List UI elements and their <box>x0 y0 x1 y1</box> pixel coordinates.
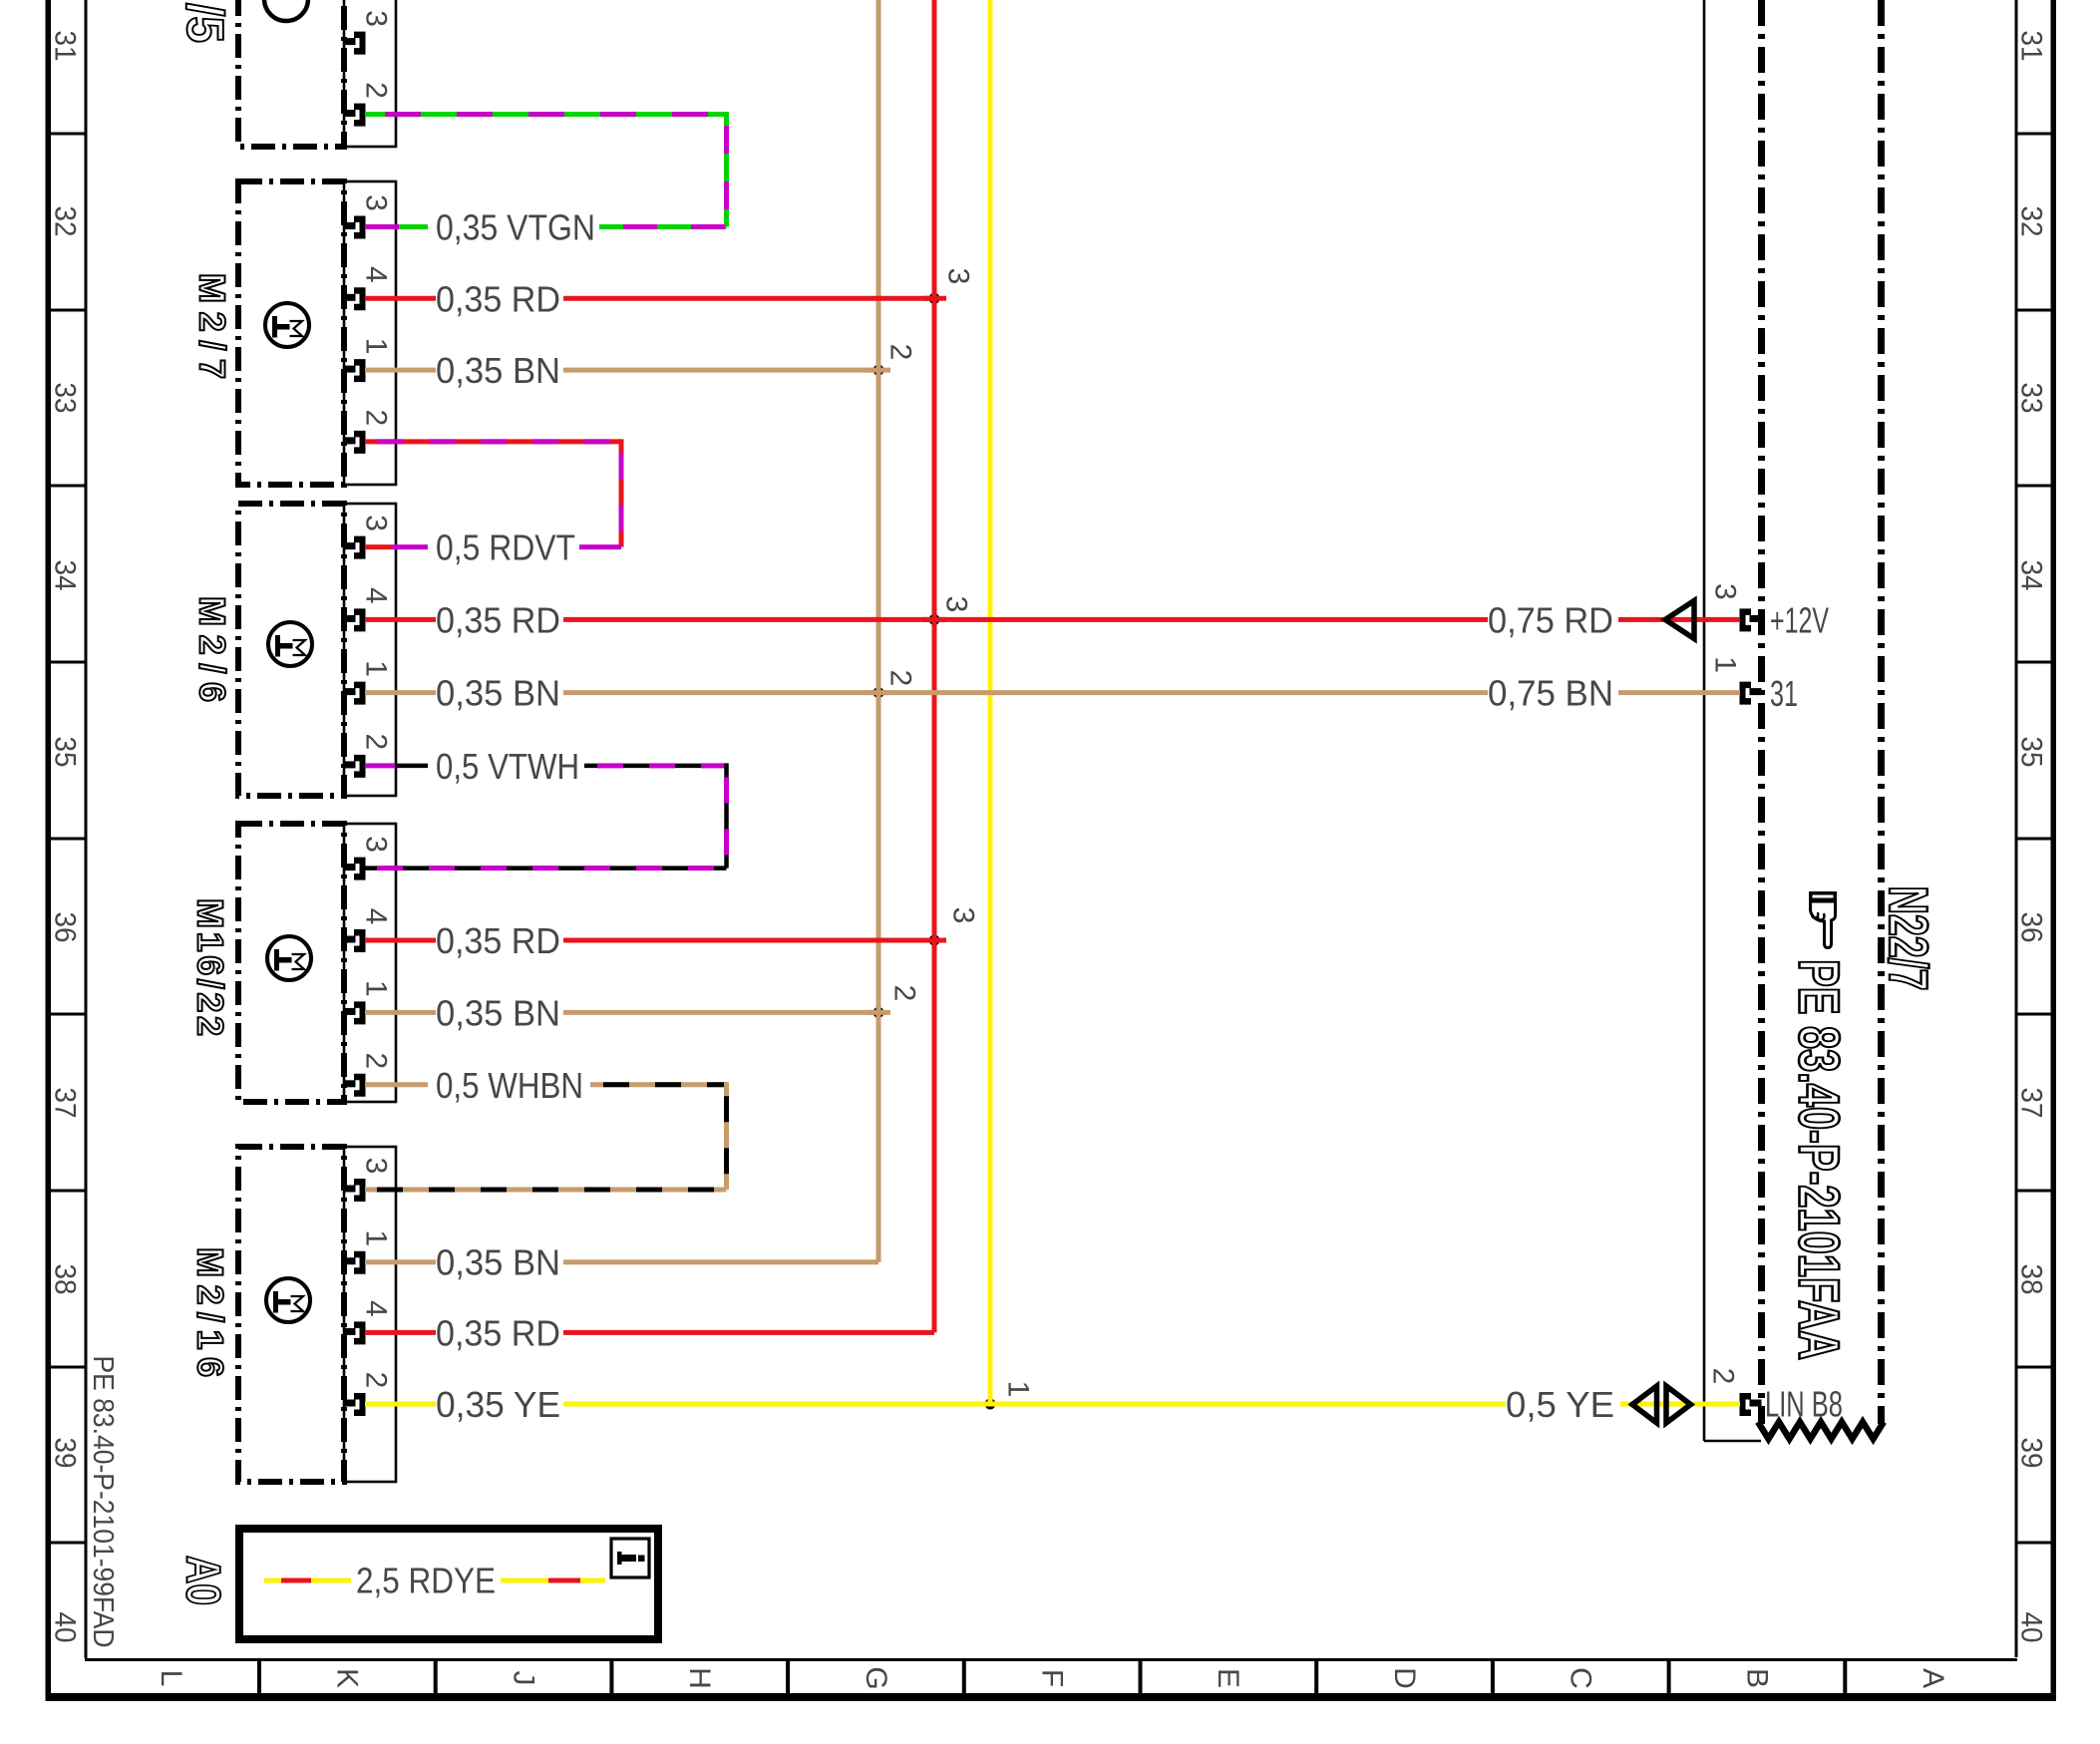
svg-text:3: 3 <box>360 836 393 853</box>
svg-text:0,5 RDVT: 0,5 RDVT <box>436 527 575 568</box>
svg-text:M2/16: M2/16 <box>190 1247 231 1377</box>
svg-text:37: 37 <box>2015 1088 2048 1119</box>
svg-text:PE 83.40-P-2101FAA: PE 83.40-P-2101FAA <box>1787 959 1851 1360</box>
svg-text:0,75 RD: 0,75 RD <box>1488 600 1613 641</box>
svg-text:M16/22: M16/22 <box>190 898 231 1036</box>
svg-text:2: 2 <box>884 344 917 361</box>
svg-text:M2/7: M2/7 <box>192 273 233 379</box>
svg-text:3: 3 <box>942 268 975 285</box>
svg-text:4: 4 <box>360 587 393 604</box>
svg-text:3: 3 <box>940 596 973 613</box>
svg-text:32: 32 <box>2015 206 2048 237</box>
svg-text:/5: /5 <box>175 3 233 43</box>
svg-text:2: 2 <box>360 410 393 427</box>
svg-text:36: 36 <box>2015 912 2048 943</box>
svg-text:38: 38 <box>2015 1264 2048 1295</box>
svg-text:34: 34 <box>49 560 82 591</box>
svg-text:1: 1 <box>360 1229 393 1246</box>
svg-text:2,5 RDYE: 2,5 RDYE <box>356 1561 496 1601</box>
svg-text:0,5 VTWH: 0,5 VTWH <box>436 746 579 787</box>
svg-text:0,35 BN: 0,35 BN <box>436 992 560 1033</box>
svg-text:1: 1 <box>360 980 393 997</box>
svg-text:31: 31 <box>49 31 82 62</box>
svg-text:0,35 RD: 0,35 RD <box>436 599 560 640</box>
svg-text:39: 39 <box>49 1438 82 1469</box>
svg-text:4: 4 <box>360 1300 393 1317</box>
svg-text:0,35 RD: 0,35 RD <box>436 920 560 961</box>
svg-text:0,5 WHBN: 0,5 WHBN <box>436 1065 583 1106</box>
svg-text:4: 4 <box>360 908 393 925</box>
svg-text:0,35 VTGN: 0,35 VTGN <box>436 207 595 248</box>
svg-text:E: E <box>1212 1668 1244 1688</box>
svg-text:0,75 BN: 0,75 BN <box>1488 673 1613 714</box>
svg-text:2: 2 <box>360 1372 393 1389</box>
svg-text:4: 4 <box>360 266 393 283</box>
svg-text:3: 3 <box>360 194 393 211</box>
svg-text:0,35 YE: 0,35 YE <box>436 1384 560 1425</box>
svg-text:1: 1 <box>360 338 393 355</box>
svg-text:A0: A0 <box>176 1556 229 1605</box>
svg-text:35: 35 <box>2015 737 2048 768</box>
svg-text:38: 38 <box>49 1264 82 1295</box>
svg-text:33: 33 <box>2015 383 2048 414</box>
svg-text:0,5 YE: 0,5 YE <box>1506 1384 1614 1425</box>
svg-text:D: D <box>1388 1667 1421 1689</box>
svg-text:31: 31 <box>2015 31 2048 62</box>
svg-text:35: 35 <box>49 737 82 768</box>
svg-text:3: 3 <box>947 907 980 924</box>
svg-text:2: 2 <box>888 985 921 1002</box>
svg-text:3: 3 <box>360 1158 393 1175</box>
svg-text:33: 33 <box>49 383 82 414</box>
svg-text:A: A <box>1917 1668 1949 1688</box>
svg-text:31: 31 <box>1770 673 1798 714</box>
svg-text:L: L <box>155 1670 187 1687</box>
svg-text:1: 1 <box>1709 656 1742 673</box>
svg-text:40: 40 <box>49 1612 82 1643</box>
svg-text:2: 2 <box>360 82 393 99</box>
svg-text:+12V: +12V <box>1770 600 1829 641</box>
svg-text:2: 2 <box>1707 1368 1740 1385</box>
svg-text:M2/6: M2/6 <box>192 596 233 702</box>
svg-text:J: J <box>507 1671 539 1686</box>
svg-text:H: H <box>683 1667 716 1689</box>
svg-text:G: G <box>860 1666 892 1689</box>
svg-text:39: 39 <box>2015 1438 2048 1469</box>
svg-text:36: 36 <box>49 912 82 943</box>
svg-text:0,35 BN: 0,35 BN <box>436 1242 560 1283</box>
svg-text:1: 1 <box>360 660 393 677</box>
svg-text:3: 3 <box>360 515 393 531</box>
svg-text:F: F <box>1036 1669 1069 1687</box>
svg-text:37: 37 <box>49 1088 82 1119</box>
svg-text:B: B <box>1740 1668 1773 1688</box>
svg-text:40: 40 <box>2015 1612 2048 1643</box>
svg-text:LIN B8: LIN B8 <box>1765 1384 1843 1425</box>
svg-text:N22/7: N22/7 <box>1878 886 1939 991</box>
svg-text:C: C <box>1565 1667 1597 1689</box>
svg-text:0,35 RD: 0,35 RD <box>436 1312 560 1353</box>
svg-text:0,35 BN: 0,35 BN <box>436 673 560 714</box>
svg-text:1: 1 <box>1002 1381 1035 1398</box>
svg-text:0,35 RD: 0,35 RD <box>436 278 560 319</box>
svg-text:32: 32 <box>49 206 82 237</box>
svg-text:0,35 BN: 0,35 BN <box>436 350 560 391</box>
svg-text:PE 83.40-P-2101-99FAD: PE 83.40-P-2101-99FAD <box>87 1356 119 1648</box>
svg-text:K: K <box>331 1668 364 1688</box>
svg-text:2: 2 <box>884 670 917 687</box>
svg-text:34: 34 <box>2015 560 2048 591</box>
svg-text:2: 2 <box>360 1052 393 1069</box>
svg-text:3: 3 <box>360 10 393 27</box>
svg-text:2: 2 <box>360 734 393 751</box>
svg-text:3: 3 <box>1709 583 1742 600</box>
